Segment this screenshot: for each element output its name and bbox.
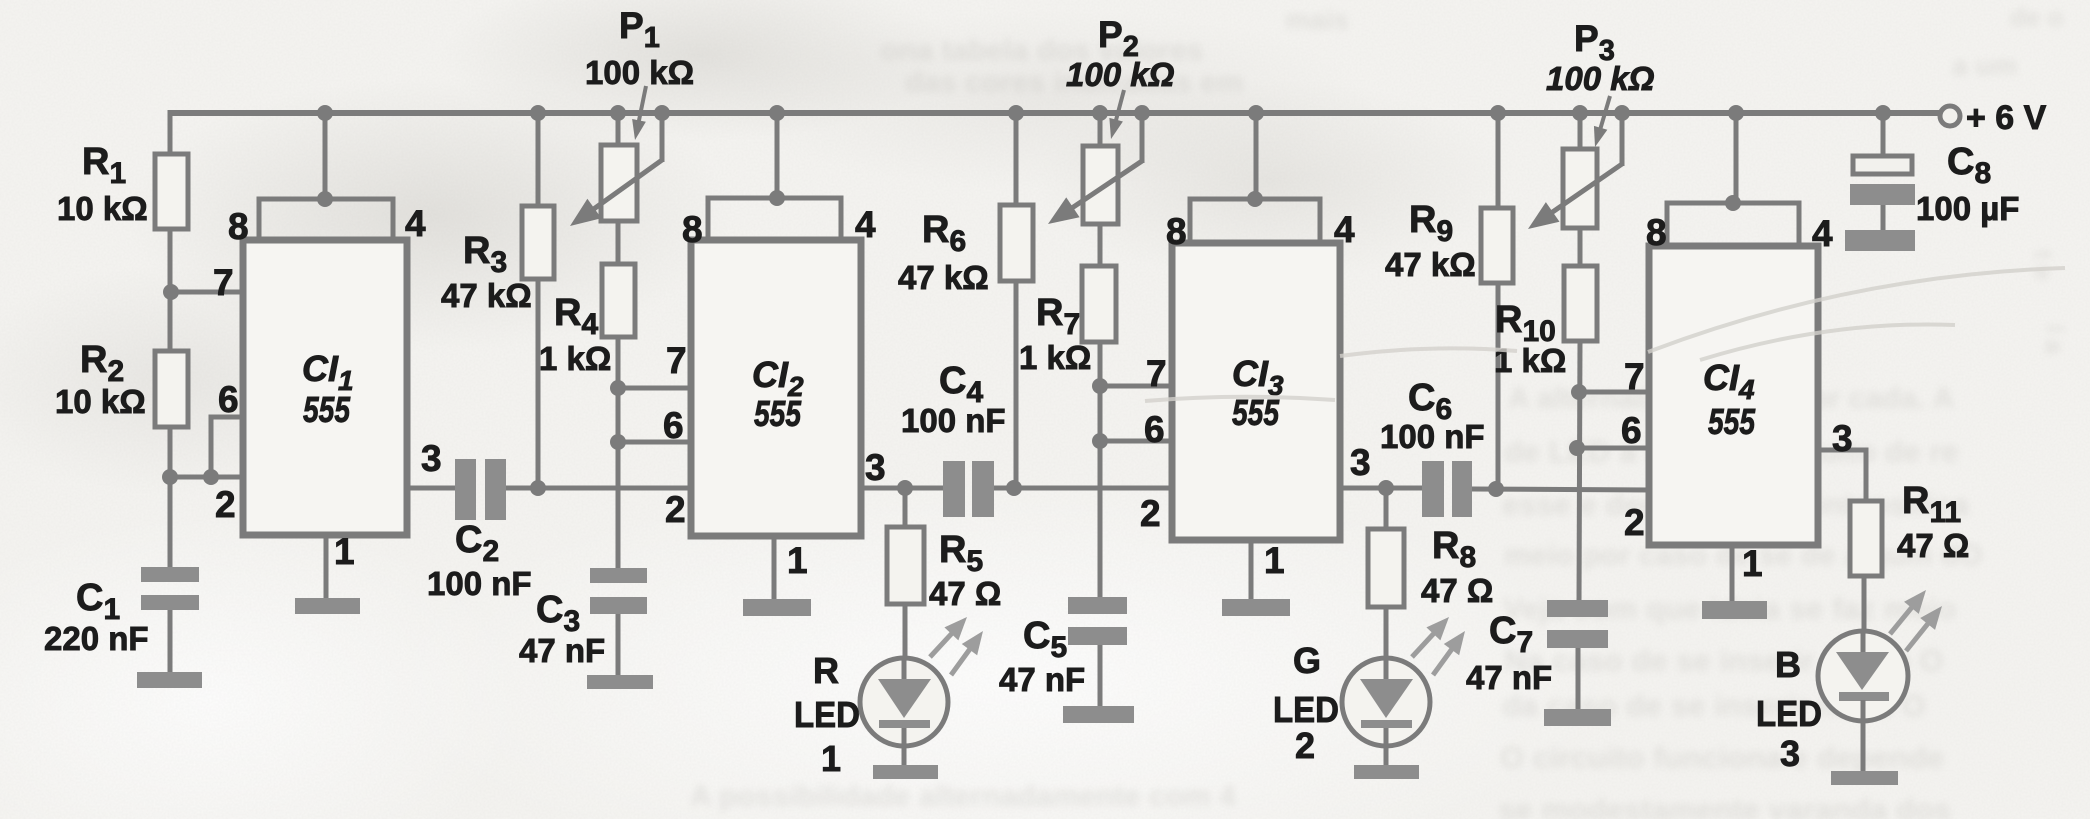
svg-text:8: 8 (1166, 211, 1187, 252)
svg-text:4: 4 (1334, 209, 1355, 250)
svg-text:4: 4 (855, 204, 876, 245)
svg-text:100 nF: 100 nF (1380, 418, 1485, 455)
svg-text:3: 3 (865, 447, 886, 488)
svg-text:10 kΩ: 10 kΩ (55, 383, 146, 420)
svg-text:7: 7 (1624, 356, 1645, 397)
svg-text:100 µF: 100 µF (1916, 190, 2019, 227)
svg-text:1: 1 (787, 540, 808, 581)
svg-text:8: 8 (228, 206, 249, 247)
svg-text:47 nF: 47 nF (999, 661, 1085, 698)
svg-text:1: 1 (1264, 540, 1285, 581)
svg-text:3: 3 (421, 438, 442, 479)
svg-text:1: 1 (1742, 543, 1763, 584)
svg-text:47 Ω: 47 Ω (1421, 572, 1493, 609)
svg-text:47 kΩ: 47 kΩ (898, 259, 989, 296)
svg-text:220 nF: 220 nF (44, 620, 149, 657)
svg-text:47 nF: 47 nF (519, 632, 605, 669)
svg-text:47 kΩ: 47 kΩ (1385, 246, 1476, 283)
svg-text:R: R (813, 650, 839, 691)
svg-text:2: 2 (215, 484, 236, 525)
svg-text:LED: LED (794, 694, 860, 735)
svg-text:47 nF: 47 nF (1466, 659, 1552, 696)
svg-text:1 kΩ: 1 kΩ (1019, 339, 1091, 376)
svg-text:6: 6 (218, 379, 239, 420)
svg-text:+ 6 V: + 6 V (1966, 99, 2047, 137)
svg-text:555: 555 (303, 389, 351, 430)
svg-text:47 Ω: 47 Ω (929, 575, 1001, 612)
svg-text:47 Ω: 47 Ω (1897, 527, 1969, 564)
svg-text:3: 3 (1832, 418, 1853, 459)
svg-text:LED: LED (1273, 689, 1339, 730)
svg-text:100 nF: 100 nF (427, 565, 532, 602)
svg-text:1: 1 (334, 531, 355, 572)
svg-text:1: 1 (821, 738, 841, 779)
svg-text:2: 2 (665, 489, 686, 530)
svg-text:555: 555 (754, 393, 802, 434)
svg-text:6: 6 (663, 405, 684, 446)
svg-text:B: B (1775, 644, 1801, 685)
svg-text:1 kΩ: 1 kΩ (1494, 342, 1566, 379)
svg-text:2: 2 (1140, 493, 1161, 534)
svg-text:47 kΩ: 47 kΩ (441, 277, 532, 314)
svg-text:3: 3 (1780, 733, 1800, 774)
svg-text:100 kΩ: 100 kΩ (585, 54, 694, 91)
svg-text:LED: LED (1756, 693, 1822, 734)
svg-text:4: 4 (1812, 213, 1833, 254)
svg-text:8: 8 (682, 209, 703, 250)
svg-text:7: 7 (1146, 353, 1167, 394)
svg-text:4: 4 (405, 203, 426, 244)
svg-text:100 kΩ: 100 kΩ (1066, 56, 1175, 93)
svg-text:7: 7 (213, 262, 234, 303)
svg-text:555: 555 (1708, 401, 1756, 442)
svg-text:2: 2 (1624, 502, 1645, 543)
svg-text:1 kΩ: 1 kΩ (539, 340, 611, 377)
svg-text:6: 6 (1621, 410, 1642, 451)
svg-text:7: 7 (666, 340, 687, 381)
svg-text:8: 8 (1646, 212, 1667, 253)
svg-text:G: G (1293, 640, 1321, 681)
svg-text:100 kΩ: 100 kΩ (1546, 60, 1655, 97)
svg-text:3: 3 (1350, 442, 1371, 483)
svg-text:2: 2 (1295, 725, 1315, 766)
svg-text:100 nF: 100 nF (901, 402, 1006, 439)
svg-text:10 kΩ: 10 kΩ (57, 190, 148, 227)
svg-text:6: 6 (1144, 409, 1165, 450)
